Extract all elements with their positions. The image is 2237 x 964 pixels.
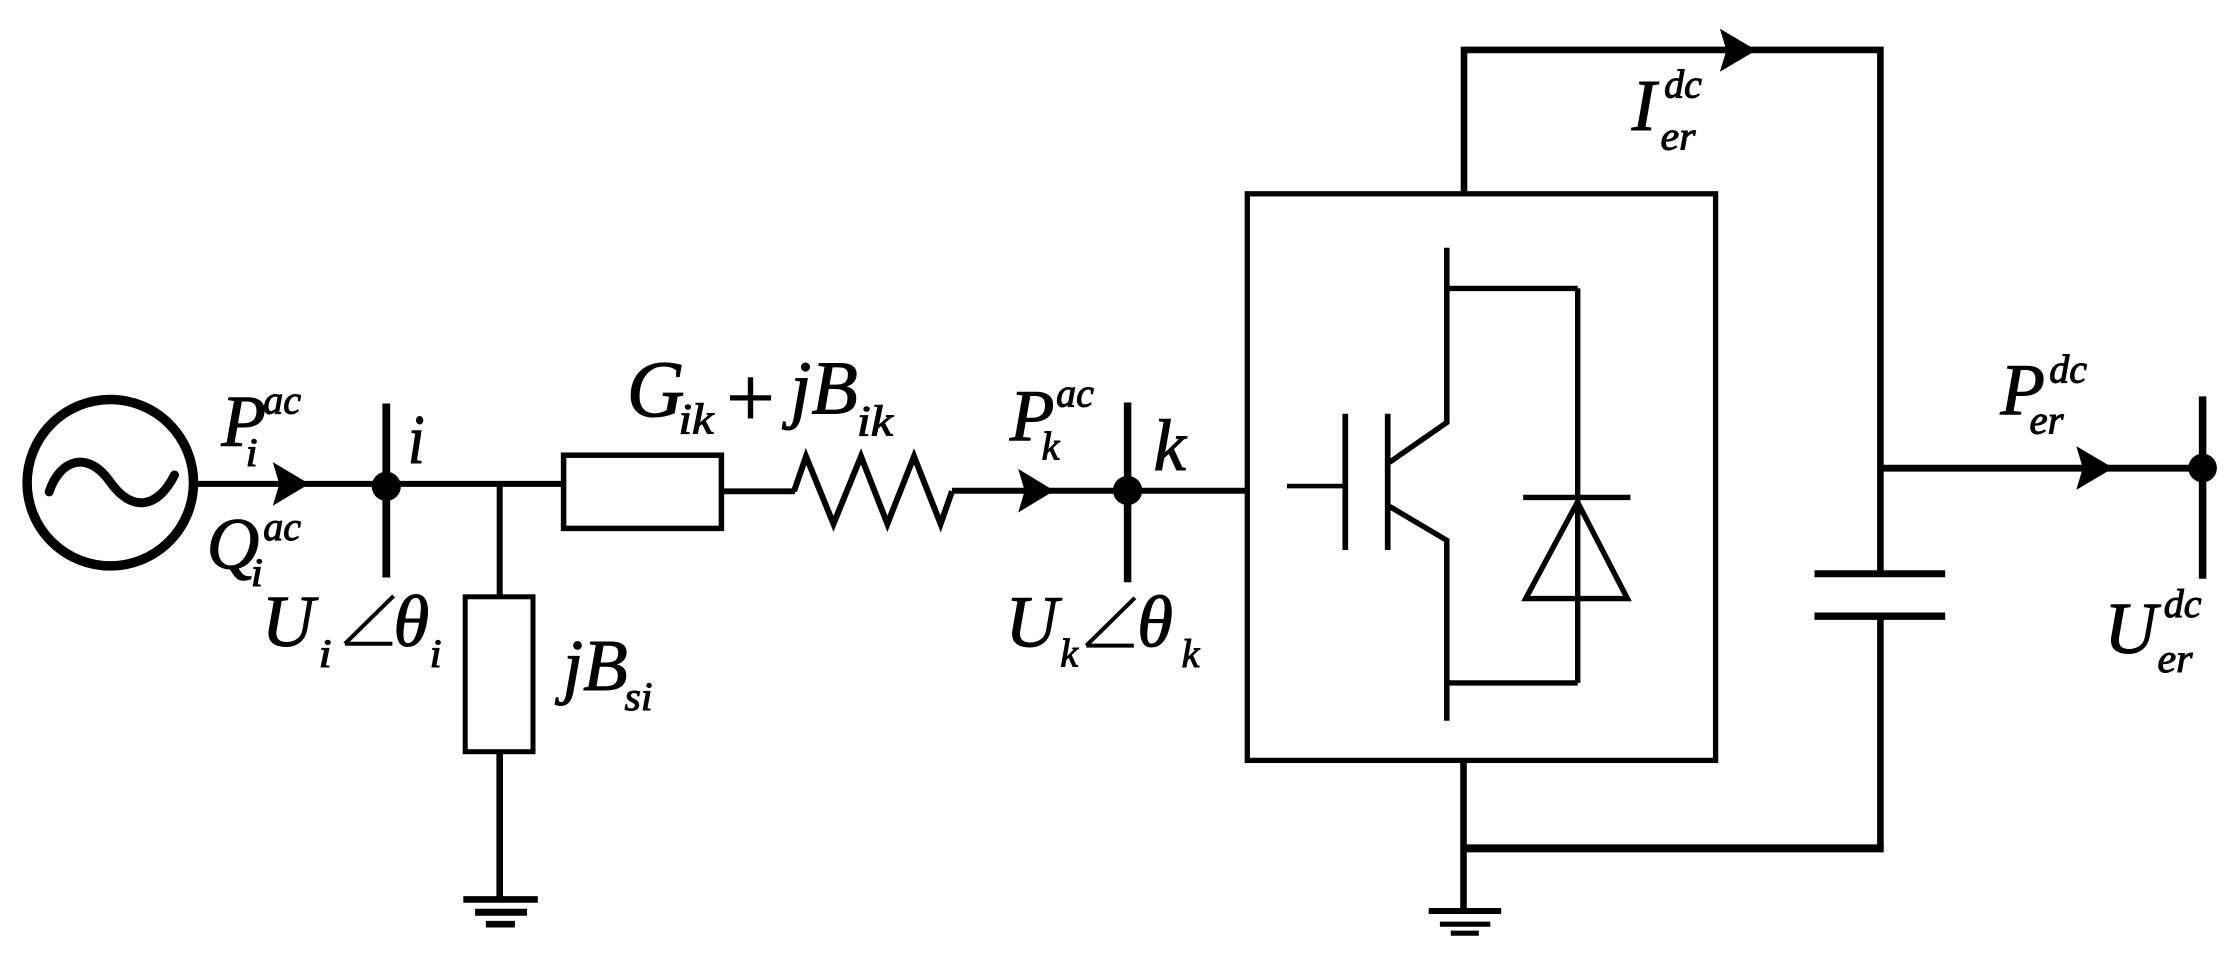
label U_er^dc bbox=[2104, 581, 2202, 681]
wire source to node i to shunt tee to box bbox=[194, 481, 565, 487]
IGBT Q1 emitter angled lead bbox=[1390, 506, 1449, 541]
IGBT Q1 body bar bbox=[1385, 414, 1391, 550]
svg-text:k: k bbox=[1182, 631, 1201, 676]
wire node i down-tee to shunt jBsi bbox=[497, 484, 503, 599]
svg-text:ac: ac bbox=[1056, 371, 1094, 416]
angle symbol of U_k bbox=[1086, 598, 1135, 646]
node k junction dot bbox=[1113, 476, 1142, 505]
wire capacitor to bottom rail bbox=[1877, 616, 1884, 848]
svg-text:er: er bbox=[2158, 636, 2193, 681]
ground (right, below converter) bbox=[1429, 911, 1502, 933]
arrow P_k^ac bbox=[1018, 469, 1054, 513]
wire converter top loop bbox=[1464, 50, 1880, 571]
svg-text:i: i bbox=[246, 430, 258, 475]
svg-text:U: U bbox=[2104, 588, 2161, 669]
svg-text:i: i bbox=[408, 402, 425, 479]
svg-text:θ: θ bbox=[1137, 582, 1173, 663]
bus bar er (dc node) bbox=[2199, 396, 2207, 578]
svg-text:dc: dc bbox=[1664, 62, 1702, 107]
wire converter bottom to ground bbox=[1460, 760, 1467, 912]
label P_er^dc bbox=[1999, 347, 2087, 443]
wire IGBT emitter to diode anode bbox=[1447, 680, 1578, 685]
diode D1 triangle bbox=[1526, 502, 1628, 599]
svg-text:jB: jB bbox=[555, 625, 628, 706]
label P_i^ac bbox=[220, 378, 301, 476]
label U_k angle theta_k bbox=[1005, 582, 1200, 677]
IGBT Q1 collector angled lead bbox=[1390, 422, 1449, 463]
resistor zigzag Rik bbox=[794, 456, 952, 524]
angle symbol of U_i bbox=[345, 596, 394, 644]
bus bar k bbox=[1124, 403, 1132, 583]
wire bottom rail bbox=[1464, 844, 1884, 852]
capacitor C1 top plate bbox=[1815, 570, 1946, 577]
svg-text:U: U bbox=[262, 581, 319, 662]
wire jBsi to ground bbox=[496, 752, 503, 900]
svg-text:i: i bbox=[430, 631, 442, 676]
IGBT Q1 emitter vertical lead bbox=[1444, 540, 1450, 721]
label U_i angle theta_i bbox=[262, 581, 442, 676]
svg-text:ik: ik bbox=[679, 397, 715, 444]
series impedance box Gik+jBik bbox=[564, 455, 722, 528]
wire IGBT collector to diode cathode bbox=[1447, 286, 1578, 291]
wire box to resistor bbox=[721, 488, 795, 494]
svg-text:ac: ac bbox=[263, 378, 301, 423]
diode D1 cathode bar bbox=[1523, 495, 1630, 500]
svg-text:dc: dc bbox=[2049, 347, 2087, 392]
label I_er^dc bbox=[1631, 62, 1702, 159]
svg-text:er: er bbox=[1661, 114, 1696, 159]
svg-text:si: si bbox=[625, 674, 653, 719]
shunt reactor jBsi rectangle bbox=[465, 597, 533, 752]
wire resistor to node k to converter bbox=[952, 488, 1247, 494]
diode D1 vertical lead bbox=[1575, 288, 1580, 683]
ground (left, below jBsi) bbox=[463, 899, 538, 924]
IGBT Q1 gate lead bbox=[1287, 484, 1345, 489]
converter box U1 bbox=[1247, 194, 1715, 761]
svg-text:+: + bbox=[721, 349, 779, 445]
IGBT Q1 gate bar bbox=[1342, 414, 1348, 550]
svg-text:θ: θ bbox=[393, 581, 429, 662]
svg-text:i: i bbox=[319, 631, 332, 676]
arrow P_er^dc bbox=[2076, 446, 2113, 490]
label jB_si bbox=[555, 625, 653, 719]
label Q_i^ac bbox=[207, 504, 302, 596]
svg-text:er: er bbox=[2030, 398, 2064, 443]
svg-text:ac: ac bbox=[263, 504, 301, 549]
svg-text:P: P bbox=[220, 381, 266, 462]
AC source G1 circle bbox=[27, 400, 193, 566]
svg-text:k: k bbox=[1042, 424, 1061, 469]
IGBT Q1 collector vertical lead bbox=[1444, 248, 1450, 424]
svg-text:I: I bbox=[1631, 65, 1660, 146]
node er junction dot bbox=[2188, 454, 2217, 483]
wire dc output P_er bbox=[1880, 465, 2203, 472]
bus bar i bbox=[382, 404, 390, 578]
svg-text:k: k bbox=[1154, 405, 1188, 486]
svg-text:G: G bbox=[627, 347, 685, 435]
node i junction dot bbox=[372, 472, 401, 501]
AC source sine wave bbox=[49, 462, 174, 503]
label P_k^ac bbox=[1009, 371, 1094, 469]
svg-text:jB: jB bbox=[781, 346, 858, 430]
label G_ik + jB_ik bbox=[627, 346, 894, 445]
svg-text:ik: ik bbox=[857, 399, 894, 446]
arrow P_i^ac bbox=[273, 462, 310, 506]
capacitor C1 bottom plate bbox=[1815, 613, 1946, 620]
arrow I_er^dc bbox=[1720, 29, 1756, 72]
svg-text:U: U bbox=[1005, 582, 1062, 663]
svg-text:dc: dc bbox=[2164, 581, 2202, 626]
svg-text:k: k bbox=[1060, 631, 1079, 676]
